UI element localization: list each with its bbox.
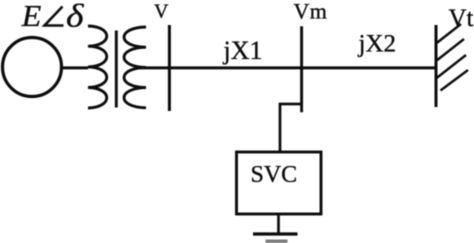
- bus Vm (node Vm): [300, 26, 303, 112]
- transformer T1 primary winding: [88, 26, 107, 108]
- svg-text:jX1: jX1: [223, 36, 263, 65]
- svg-text:V: V: [154, 1, 169, 23]
- svg-text:Vt: Vt: [449, 5, 474, 32]
- SVC box: [237, 152, 322, 214]
- wire generator to transformer: [60, 66, 88, 69]
- svg-text:SVC: SVC: [251, 162, 298, 188]
- generator G1: [3, 38, 62, 97]
- svg-text:δ: δ: [66, 0, 84, 35]
- wire SVC tap: [280, 104, 302, 152]
- wall hatch 4: [441, 70, 469, 91]
- infinite bus wall Vt: [435, 25, 438, 107]
- wall hatch 3: [436, 55, 466, 79]
- wire SVC to ground: [277, 214, 280, 234]
- svg-text:jX2: jX2: [358, 31, 397, 58]
- main wire transformer to infinite bus: [138, 66, 436, 69]
- wall hatch 2: [436, 39, 464, 61]
- transformer T1 core: [115, 31, 118, 108]
- transformer T1 secondary winding: [124, 27, 146, 108]
- wall hatch 1: [436, 24, 461, 44]
- bus V: [168, 25, 171, 111]
- svg-text:E: E: [21, 0, 42, 33]
- angle symbol of E∠δ: [45, 7, 64, 26]
- ground bar 1: [253, 232, 298, 235]
- ground bar 2: [266, 240, 288, 243]
- svg-text:Vm: Vm: [294, 0, 328, 23]
